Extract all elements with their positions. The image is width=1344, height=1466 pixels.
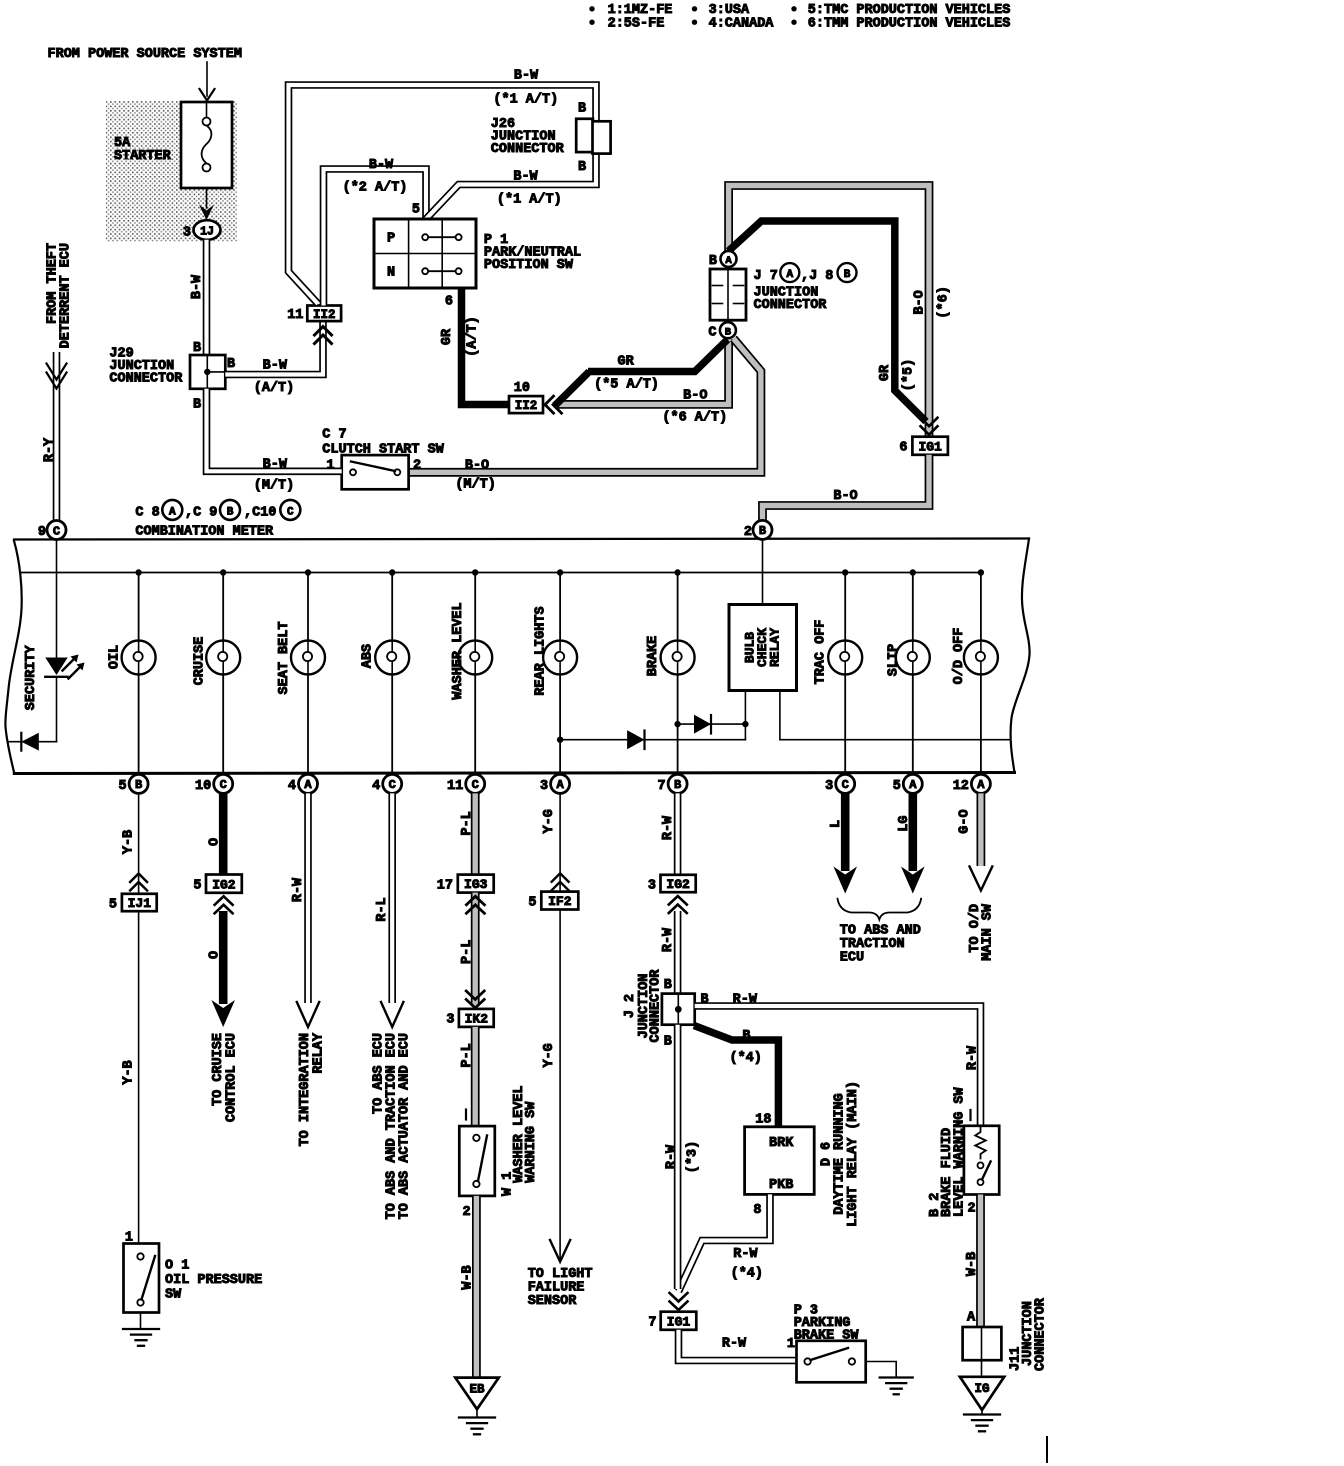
- svg-text:B-W: B-W: [513, 170, 538, 185]
- ground from parking brake sw: [866, 1362, 913, 1395]
- svg-text:IG2: IG2: [212, 877, 236, 892]
- svg-text:P: P: [387, 232, 395, 247]
- relay output wire to right: [780, 691, 1010, 740]
- header C8(A) C9(B) C10(C) COMBINATION METER: [135, 500, 300, 540]
- svg-text:SEAT BELT: SEAT BELT: [277, 622, 292, 695]
- svg-text:SW: SW: [165, 1288, 182, 1303]
- svg-text:B: B: [759, 524, 766, 538]
- connector 1J (pin 3): [183, 220, 221, 240]
- svg-text:6:TMM PRODUCTION VEHICLES: 6:TMM PRODUCTION VEHICLES: [808, 17, 1011, 32]
- stipple background behind starter fuse: [106, 101, 237, 242]
- bulb TRAC OFF: [813, 569, 862, 774]
- svg-text:A: A: [556, 778, 564, 792]
- svg-text:(*4): (*4): [729, 1051, 761, 1066]
- svg-text:CRUISE: CRUISE: [192, 637, 207, 686]
- svg-text:R-W: R-W: [733, 1247, 758, 1262]
- wire R-W from pin 4(A) to integration relay: [291, 793, 327, 1146]
- svg-text:A: A: [909, 778, 917, 792]
- svg-text:EB: EB: [469, 1383, 485, 1397]
- svg-text:N: N: [387, 266, 395, 281]
- svg-text:R-W: R-W: [661, 815, 676, 840]
- svg-text:B: B: [664, 978, 672, 993]
- svg-text:O: O: [208, 838, 223, 846]
- svg-text:4:CANADA: 4:CANADA: [709, 17, 775, 32]
- svg-text:ECU: ECU: [840, 951, 864, 966]
- svg-text:R-W: R-W: [665, 1144, 680, 1169]
- svg-text:B: B: [193, 341, 201, 356]
- connector IF2 pin 5: [528, 892, 578, 911]
- meter pin 3(C): [825, 774, 855, 794]
- svg-text:3: 3: [825, 779, 833, 794]
- ground IG: [960, 1360, 1004, 1431]
- meter pin 3(A): [540, 774, 570, 794]
- svg-text:B: B: [664, 1035, 672, 1050]
- svg-text:Y-B: Y-B: [122, 1060, 137, 1084]
- junction connector J7(A) J8(B): [710, 263, 857, 320]
- svg-text:B: B: [135, 778, 142, 792]
- svg-text:B-O: B-O: [683, 389, 707, 404]
- svg-text:4: 4: [372, 779, 380, 794]
- svg-text:A: A: [967, 1311, 976, 1326]
- wire B-W (A/T) from J29 to connector II2 pin 11: [225, 322, 331, 396]
- meter pin 10(C): [195, 774, 233, 794]
- svg-text:L: L: [829, 820, 844, 828]
- svg-text:B-W: B-W: [369, 158, 394, 173]
- svg-text:5: 5: [528, 895, 536, 910]
- svg-text:RELAY: RELAY: [768, 628, 783, 667]
- wire R-W from IG1 to parking brake sw: [679, 1330, 797, 1361]
- bulb ABS: [361, 569, 410, 774]
- svg-text:IJ1: IJ1: [128, 896, 152, 911]
- svg-text:B: B: [193, 398, 201, 413]
- meter pin 12(A): [953, 774, 991, 794]
- wire from power source with arrow into fuse: [200, 62, 215, 101]
- svg-text:10: 10: [195, 779, 211, 794]
- svg-text:2: 2: [462, 1205, 470, 1220]
- svg-text:(*1 A/T): (*1 A/T): [497, 193, 562, 208]
- svg-text:,C 9: ,C 9: [185, 506, 217, 521]
- svg-text:O/D OFF: O/D OFF: [952, 628, 967, 685]
- wire W-B from B2 to junction connector J11: [965, 1195, 981, 1328]
- wire G-O from pin 12(A) to O/D main sw: [958, 793, 996, 960]
- meter internal bus: [21, 572, 982, 574]
- svg-text:(M/T): (M/T): [254, 479, 295, 494]
- fuse 5A STARTER: [114, 102, 232, 188]
- svg-text:(*5): (*5): [902, 359, 917, 391]
- svg-text:(*3): (*3): [686, 1141, 701, 1173]
- meter pin 9(C): [38, 521, 66, 541]
- svg-text:CLUTCH START SW: CLUTCH START SW: [322, 443, 444, 458]
- wire B-W (*2 A/T) from II2 pin 11 to park/neutral sw pin 5: [324, 158, 427, 306]
- svg-text:OIL PRESSURE: OIL PRESSURE: [165, 1273, 262, 1288]
- svg-text:B-W: B-W: [190, 274, 205, 299]
- meter pin 5(A): [893, 774, 923, 794]
- svg-text:J 7: J 7: [754, 269, 778, 284]
- wire Y-G from IF2 to light failure sensor: [528, 910, 593, 1310]
- svg-text:B-W: B-W: [514, 69, 539, 84]
- meter pin 7(B): [657, 774, 687, 794]
- svg-text:PKB: PKB: [769, 1178, 793, 1193]
- svg-text:GR: GR: [440, 328, 455, 345]
- svg-text:TO ABS ACTUATOR AND ECU: TO ABS ACTUATOR AND ECU: [398, 1033, 413, 1219]
- wire R-W from J2 to brake fluid level warning sw: [695, 993, 981, 1126]
- wire R-W from pin 7(B) to connector IG2 pin 3: [661, 793, 678, 874]
- svg-text:B-W: B-W: [263, 457, 288, 472]
- wire B-W (*1 A/T) loop from J26 top to II2 pin 11: [289, 69, 597, 304]
- svg-text:(*6 A/T): (*6 A/T): [662, 411, 727, 426]
- svg-text:B-O: B-O: [465, 458, 489, 473]
- svg-text:R-W: R-W: [966, 1045, 981, 1070]
- svg-text:B: B: [578, 102, 586, 117]
- park/neutral position switch P1: [374, 219, 581, 310]
- svg-text:TRAC OFF: TRAC OFF: [813, 620, 828, 685]
- svg-text:R-W: R-W: [722, 1337, 747, 1352]
- meter pin 2(B): [744, 520, 772, 540]
- svg-text:II2: II2: [515, 399, 538, 413]
- svg-text:IG2: IG2: [666, 877, 690, 892]
- junction connector J29: [109, 341, 235, 413]
- security LED: [24, 540, 84, 742]
- J7 pin B circle: [708, 322, 736, 340]
- svg-text:W-B: W-B: [461, 1265, 476, 1289]
- svg-text:(*5 A/T): (*5 A/T): [594, 378, 659, 393]
- label FROM POWER SOURCE SYSTEM: [48, 47, 242, 62]
- svg-text:2: 2: [744, 525, 752, 540]
- wire GR (A/T) from P1 pin 6 to connector II2 pin 10: [440, 288, 509, 405]
- svg-text:ABS: ABS: [361, 644, 376, 668]
- connector IJ1 pin 5: [109, 894, 157, 913]
- svg-text:A: A: [169, 506, 176, 518]
- svg-text:BRAKE: BRAKE: [646, 636, 661, 677]
- svg-text:(*1 A/T): (*1 A/T): [493, 93, 558, 108]
- svg-text:Y-G: Y-G: [542, 809, 557, 833]
- junction connector J26: [491, 102, 611, 176]
- svg-text:DETERRENT ECU: DETERRENT ECU: [59, 243, 74, 348]
- svg-text:G-O: G-O: [958, 809, 973, 833]
- svg-text:MAIN SW: MAIN SW: [981, 903, 996, 961]
- washer level warning switch W1: [459, 1085, 539, 1220]
- svg-text:CONNECTOR: CONNECTOR: [491, 142, 565, 157]
- meter pin 4(A): [288, 774, 318, 794]
- svg-text:3: 3: [540, 779, 548, 794]
- svg-text:6: 6: [445, 295, 453, 310]
- svg-text:C: C: [53, 524, 60, 538]
- wire Y-B from pin 5(B) to connector IJ1: [122, 793, 148, 893]
- bulb REAR LIGHTS: [534, 569, 578, 774]
- svg-text:R-W: R-W: [733, 993, 758, 1008]
- svg-text:B-O: B-O: [913, 290, 928, 314]
- connector IG2 pin 3: [648, 875, 696, 913]
- svg-text:2: 2: [967, 1202, 975, 1217]
- svg-text:SLIP: SLIP: [887, 644, 902, 676]
- svg-text:Y-G: Y-G: [542, 1043, 557, 1067]
- svg-text:A: A: [977, 778, 985, 792]
- svg-text:10: 10: [514, 381, 530, 396]
- svg-text:C 8: C 8: [135, 506, 159, 521]
- svg-text:BRK: BRK: [769, 1136, 794, 1151]
- svg-text:O: O: [208, 951, 223, 959]
- svg-text:P-L: P-L: [460, 1043, 475, 1067]
- svg-text:A: A: [786, 269, 793, 281]
- svg-text:(*6): (*6): [937, 286, 952, 318]
- connector IG3 pin 17: [437, 875, 494, 894]
- svg-text:5: 5: [109, 897, 117, 912]
- wire fuse to connector 1J: [199, 188, 214, 220]
- svg-text:P-L: P-L: [460, 811, 475, 835]
- svg-text:5: 5: [893, 779, 901, 794]
- svg-text:CONNECTOR: CONNECTOR: [649, 969, 664, 1043]
- svg-text:IF2: IF2: [548, 894, 572, 909]
- wire R-W (*3) from J2 to connector IG1 pin 7: [665, 1025, 701, 1310]
- svg-text:A: A: [725, 255, 732, 267]
- svg-text:C: C: [472, 778, 479, 792]
- svg-text:B: B: [674, 778, 681, 792]
- brake fluid level warning switch B2: [928, 1086, 999, 1217]
- svg-text:(*2 A/T): (*2 A/T): [343, 181, 408, 196]
- svg-text:1: 1: [125, 1231, 133, 1246]
- svg-text:6: 6: [899, 441, 907, 456]
- svg-text:OIL: OIL: [108, 645, 123, 669]
- svg-text:R-W: R-W: [291, 877, 306, 902]
- svg-text:B: B: [227, 357, 235, 372]
- wire B-O (*6) loop from J7 pin A to connector IG1 pin 6: [729, 186, 952, 437]
- wire O arrow to cruise control ECU: [208, 911, 240, 1122]
- wire R-W from IG2 to junction connector J2: [661, 911, 678, 994]
- svg-text:(A/T): (A/T): [254, 381, 295, 396]
- combination meter outline: [5, 539, 1029, 774]
- svg-text:FROM POWER SOURCE SYSTEM: FROM POWER SOURCE SYSTEM: [48, 47, 242, 62]
- svg-text:,C10: ,C10: [244, 506, 276, 521]
- ground EB: [455, 1378, 499, 1435]
- meter pin 4(C): [372, 774, 402, 794]
- junction connector J11: [963, 1297, 1049, 1371]
- page edge mark: [1046, 1437, 1048, 1462]
- wire GR (*5 A/T) from II2 pin 10 to junction J7 pin B: [555, 340, 728, 406]
- svg-text:C 7: C 7: [322, 428, 346, 443]
- wire B-W from 1J to J29: [190, 240, 207, 355]
- svg-text:12: 12: [953, 779, 969, 794]
- svg-text:C: C: [287, 506, 294, 518]
- svg-text:R-L: R-L: [375, 897, 390, 921]
- svg-text:B-W: B-W: [263, 359, 288, 374]
- svg-text:(M/T): (M/T): [455, 478, 496, 493]
- svg-text:5: 5: [412, 203, 420, 218]
- svg-text:9: 9: [38, 525, 46, 540]
- svg-text:CONTROL ECU: CONTROL ECU: [224, 1033, 239, 1122]
- wire W-B from W1 to ground EB: [461, 1196, 477, 1378]
- label FROM THEFT DETERRENT ECU: [46, 243, 74, 348]
- diode from rear lights line: [557, 730, 746, 749]
- bulb O/D OFF: [952, 569, 998, 774]
- svg-text:IK2: IK2: [465, 1012, 489, 1027]
- wire O from pin 10(C) to connector IG2: [208, 793, 224, 874]
- svg-text:CONNECTOR: CONNECTOR: [109, 372, 183, 387]
- svg-text:(A/T): (A/T): [466, 316, 481, 357]
- svg-text:R-Y: R-Y: [43, 437, 58, 462]
- svg-text:B-O: B-O: [833, 489, 857, 504]
- svg-text:W-B: W-B: [965, 1252, 980, 1276]
- meter pin 11(C): [447, 774, 485, 794]
- svg-text:3: 3: [183, 226, 191, 241]
- wire B-O from IG1 pin 6 to meter pin 2: [763, 455, 930, 520]
- daytime running light relay D6: [745, 1081, 862, 1227]
- security diode: [9, 733, 57, 751]
- svg-text:3: 3: [648, 878, 656, 893]
- bulb CRUISE: [192, 569, 240, 774]
- connector II2 pin 10: [509, 381, 562, 413]
- svg-text:LIGHT RELAY (MAIN): LIGHT RELAY (MAIN): [846, 1081, 861, 1227]
- svg-text:LG: LG: [897, 815, 912, 831]
- bulb WASHER LEVEL: [451, 569, 492, 774]
- svg-text:SECURITY: SECURITY: [24, 644, 39, 710]
- svg-text:C: C: [842, 778, 849, 792]
- svg-text:GR: GR: [878, 364, 893, 381]
- brace and label TO ABS AND TRACTION ECU: [838, 899, 922, 966]
- svg-text:J 2: J 2: [623, 994, 638, 1018]
- svg-text:17: 17: [437, 878, 453, 893]
- svg-text:18: 18: [755, 1113, 771, 1128]
- J7 pin A circle: [709, 251, 737, 269]
- svg-text:BRAKE SW: BRAKE SW: [794, 1329, 860, 1344]
- meter pin 5(B): [118, 774, 148, 794]
- svg-text:3: 3: [446, 1013, 454, 1028]
- wire Y-B from IJ1 to oil pressure sw: [122, 911, 139, 1243]
- svg-text:CONNECTOR: CONNECTOR: [1034, 1297, 1049, 1371]
- svg-text:P-L: P-L: [460, 940, 475, 964]
- connector IG2 pin 5: [193, 875, 241, 914]
- svg-text:COMBINATION METER: COMBINATION METER: [135, 525, 274, 540]
- svg-text:POSITION SW: POSITION SW: [484, 258, 574, 273]
- bulb BRAKE: [646, 569, 695, 774]
- svg-text:WASHER LEVEL: WASHER LEVEL: [451, 602, 466, 699]
- connector II2 pin 11: [287, 306, 341, 324]
- svg-text:O 1: O 1: [165, 1259, 189, 1274]
- svg-text:2: 2: [413, 459, 421, 474]
- svg-text:5: 5: [193, 878, 201, 893]
- svg-text:8: 8: [753, 1203, 761, 1218]
- svg-text:4: 4: [288, 779, 296, 794]
- clutch start switch C7: [322, 428, 444, 490]
- oil pressure switch O1: [124, 1231, 263, 1313]
- svg-text:B: B: [709, 254, 717, 269]
- wire B-O (M/T) from clutch start sw to junction J7 pin B: [409, 339, 761, 493]
- svg-text:R-W: R-W: [661, 927, 676, 952]
- svg-text:11: 11: [287, 308, 303, 323]
- parking brake switch P3: [794, 1304, 866, 1383]
- svg-text:IG1: IG1: [667, 1314, 691, 1329]
- connector IK2 pin 3: [446, 1009, 493, 1028]
- svg-text:5: 5: [118, 779, 126, 794]
- wire L from pin 3(C) to ABS and traction ECU: [829, 793, 857, 893]
- svg-text:B: B: [742, 1029, 750, 1044]
- wire R-Y from theft deterrent ECU to pin 9: [43, 352, 67, 520]
- svg-text:Y-B: Y-B: [122, 830, 137, 854]
- svg-text:CONNECTOR: CONNECTOR: [754, 298, 828, 313]
- svg-text:C: C: [708, 326, 716, 341]
- wire GR (*5) from J7 pin A to connector IG1 pin 6: [729, 221, 938, 435]
- svg-text:1J: 1J: [200, 226, 214, 239]
- wire Y-G from pin 3(A) to connector IF2: [542, 793, 569, 891]
- svg-text:C: C: [220, 778, 227, 792]
- svg-text:11: 11: [447, 779, 463, 794]
- junction connector J2: [623, 969, 709, 1050]
- wire B-W (*1 A/T) from pin 5 to junction connector J26: [426, 151, 596, 219]
- svg-text:WARNING SW: WARNING SW: [524, 1101, 539, 1183]
- svg-text:IG1: IG1: [918, 439, 942, 454]
- svg-text:RELAY: RELAY: [312, 1032, 327, 1073]
- bulb check relay: [729, 539, 797, 690]
- wire R-L from pin 4(C) to ABS ECU: [372, 793, 413, 1219]
- connector IG1 pin 6: [899, 437, 948, 456]
- svg-text:STARTER: STARTER: [114, 149, 172, 164]
- svg-text:B: B: [578, 160, 586, 175]
- bulb SEAT BELT: [277, 569, 325, 774]
- wire LG from pin 5(A) to ABS and traction ECU: [897, 793, 925, 893]
- wire B-W (M/T) from J29 to clutch start sw pin 1: [207, 389, 342, 494]
- diode from brake line to relay: [674, 691, 748, 740]
- svg-text:REAR LIGHTS: REAR LIGHTS: [534, 606, 549, 695]
- ground below oil pressure sw: [123, 1313, 159, 1346]
- legend engine/market notes: [589, 3, 1010, 31]
- svg-text:B: B: [725, 327, 732, 339]
- svg-text:(*4): (*4): [731, 1267, 763, 1282]
- wire P-L from IK2 to washer level sw: [460, 1027, 475, 1126]
- svg-text:IG: IG: [974, 1382, 989, 1396]
- svg-text:GR: GR: [617, 355, 634, 370]
- wire R-W (*4) from D6 pin 8 to IG1 pin 7: [679, 1194, 771, 1291]
- bulb OIL: [108, 569, 156, 774]
- svg-text:B: B: [844, 269, 851, 281]
- connector IG1 pin 7: [648, 1312, 696, 1331]
- svg-text:7: 7: [648, 1316, 656, 1331]
- svg-text:IG3: IG3: [464, 877, 488, 892]
- svg-text:2:5S-FE: 2:5S-FE: [608, 17, 665, 32]
- wire P-L from IG3 to connector IK2: [460, 893, 484, 1008]
- svg-text:,J 8: ,J 8: [801, 269, 833, 284]
- svg-text:B: B: [227, 506, 234, 518]
- svg-text:A: A: [304, 778, 312, 792]
- wire P-L from pin 11(C) to connector IG3: [460, 793, 475, 874]
- wire B-O (*6 A/T) from II2 pin 10 to junction J7 pin B: [556, 339, 729, 426]
- svg-text:LEVEL WARNING SW: LEVEL WARNING SW: [953, 1086, 968, 1217]
- svg-text:7: 7: [657, 779, 665, 794]
- wire B (*4) from J2 to daytime running light relay pin 18: [694, 1026, 778, 1128]
- svg-text:SENSOR: SENSOR: [528, 1294, 578, 1309]
- svg-text:II2: II2: [313, 308, 336, 322]
- bulb SLIP: [887, 569, 930, 774]
- svg-text:C: C: [389, 778, 396, 792]
